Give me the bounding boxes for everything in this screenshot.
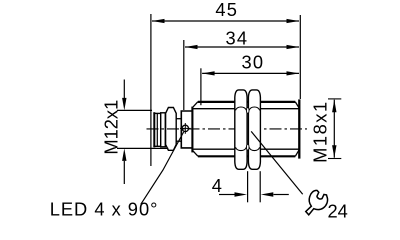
centerline (axis) bbox=[147, 128, 308, 130]
svg-text:45: 45 bbox=[215, 0, 238, 20]
dimension 45: left arrowhead bbox=[152, 19, 165, 23]
M12 dimension: top extension tick bbox=[117, 109, 152, 111]
dimension 34: extension line left bbox=[183, 40, 185, 110]
dimension 4: right arrow (pointing left) bbox=[274, 194, 289, 196]
connector hex nut section bbox=[166, 108, 177, 151]
dimension 30: right arrowhead bbox=[287, 71, 300, 75]
dimension 45: extension line left bbox=[150, 14, 152, 166]
LED indicator circle bbox=[182, 125, 188, 131]
M12 dimension: top arrow (pointing down) bbox=[123, 80, 125, 100]
thread crest line top bbox=[198, 101, 295, 103]
connector thread cylinder (left end) bbox=[153, 112, 160, 147]
lock nut 2 chamfer arcs bbox=[249, 107, 260, 151]
nut junction lens bottom bbox=[247, 144, 250, 150]
thread root line bottom bbox=[193, 148, 298, 150]
dimension 30: left arrowhead bbox=[202, 71, 215, 75]
lock nut 2 (right) bbox=[248, 90, 260, 169]
dimension 4: extension line left bbox=[247, 171, 249, 202]
dimension 30: dimension line bbox=[202, 72, 299, 74]
lock nut 1 (left) bbox=[235, 90, 247, 169]
M12 dimension: bottom arrow (pointing up) bbox=[123, 161, 125, 184]
M18 dimension: vertical line with arrows both ends bbox=[333, 100, 335, 158]
barrel right chamfer bottom bbox=[295, 150, 299, 156]
svg-text:34: 34 bbox=[226, 28, 249, 49]
barrel right chamfer top bbox=[295, 102, 299, 108]
dimension 4: left arrow (pointing right) bbox=[219, 194, 235, 196]
dimension 45: right arrowhead bbox=[287, 19, 300, 23]
nut junction lens top bbox=[247, 108, 250, 114]
dimension 30: extension line left bbox=[200, 68, 202, 105]
svg-text:M18x1: M18x1 bbox=[309, 100, 330, 163]
wrench leader line bbox=[251, 131, 303, 194]
dimension 45: extension line right bbox=[299, 15, 301, 99]
wrench symbol bbox=[302, 189, 330, 220]
svg-text:LED 4 x 90°: LED 4 x 90° bbox=[50, 199, 159, 220]
M18 dimension: top extension tick bbox=[328, 98, 341, 100]
LED crosshair horizontal bbox=[180, 127, 191, 129]
thread root line top bbox=[193, 108, 298, 110]
thread crest line bottom bbox=[198, 155, 295, 157]
barrel left chamfer bottom bbox=[193, 151, 198, 157]
svg-text:24: 24 bbox=[328, 200, 348, 221]
svg-text:30: 30 bbox=[242, 52, 265, 73]
M12 dimension: bottom extension tick bbox=[117, 147, 168, 149]
dimension 45: dimension line bbox=[152, 20, 299, 22]
barrel left end face bbox=[191, 107, 193, 153]
LED leader line bbox=[141, 132, 184, 204]
connector neck bbox=[176, 119, 181, 142]
sensing face (right end) bbox=[298, 99, 300, 158]
dimension 34: left arrowhead bbox=[185, 45, 198, 49]
collar / housing flange bbox=[181, 111, 192, 148]
dimension 34: right arrowhead bbox=[287, 45, 300, 49]
barrel left chamfer top bbox=[193, 102, 198, 108]
LED crosshair vertical bbox=[184, 123, 186, 134]
dimension 34: dimension line bbox=[185, 46, 299, 48]
lock nut 1 chamfer arcs bbox=[236, 107, 247, 151]
dimension 4: extension line right bbox=[259, 171, 261, 202]
svg-text:4: 4 bbox=[212, 175, 222, 196]
M18 dimension: bottom extension tick bbox=[328, 158, 341, 160]
svg-text:M12x1: M12x1 bbox=[101, 100, 122, 155]
connector washer section bbox=[161, 113, 166, 147]
